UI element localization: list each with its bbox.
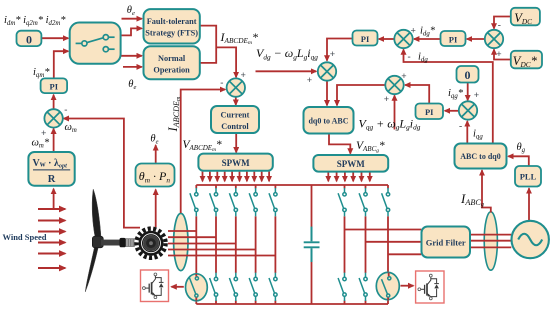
- svg-text:θm · Pn: θm · Pn: [139, 169, 171, 184]
- turbine hub: [92, 236, 103, 248]
- box: PLL: [515, 166, 541, 187]
- grid converter leg drops from top rail: [345, 185, 389, 188]
- wire: V_ABCDEm* from Current Control to machine SPWM: [235, 133, 237, 152]
- box: MPPT tip-speed-ratio Vw*lambda/R: [28, 152, 74, 186]
- svg-text:Wind Speed: Wind Speed: [3, 232, 47, 242]
- svg-text:-: -: [220, 79, 223, 89]
- svg-text:dq0 to ABC: dq0 to ABC: [308, 116, 348, 125]
- wire: iqg* zero reference into iqg summer: [467, 83, 469, 101]
- wire: VDC* reference into DC summer: [494, 49, 511, 59]
- wire: Vqg + wgLgidg feedforward up into q-axis summer: [394, 95, 396, 129]
- wire: Vq output of summer into dq0-to-ABC: [337, 85, 385, 105]
- box: PI q-axis current controller: [416, 104, 444, 120]
- svg-text:+: +: [496, 50, 501, 60]
- machine phase line C: [168, 243, 236, 245]
- grid converter mid-leg conductors: [345, 216, 389, 273]
- DC link capacitor leads: [311, 185, 313, 304]
- wire: mode switch bottom output to Normal Operation box: [121, 55, 142, 57]
- wires: grid filter to transformer to grid source: [470, 235, 511, 248]
- box: operating mode selector switch: [70, 23, 121, 64]
- wire: I_ABCg measurement up into ABC-to-dq0: [482, 170, 491, 212]
- box: theta_m times pole pairs Pn: [136, 164, 175, 187]
- wire: VDC error to DC-link PI: [467, 38, 485, 40]
- summer: machine current error: [227, 78, 245, 96]
- summer: VDC error: [485, 30, 503, 48]
- wire: PI speed controller output iqm* up to mode switch: [54, 51, 68, 78]
- turbine shaft: [101, 240, 121, 246]
- svg-text:+: +: [241, 71, 246, 81]
- summer: d-axis voltage: [318, 62, 336, 80]
- grid converter bottom stubs to rail: [345, 300, 389, 304]
- box: PI speed controller: [41, 78, 68, 93]
- wire: iqg feedback up into iqg summer: [466, 121, 468, 143]
- svg-text:+: +: [384, 95, 389, 105]
- wire: omega_m* reference from MPPT box up to summer: [53, 129, 55, 152]
- machine converter bottom stubs to rail: [196, 300, 275, 304]
- wire: theta_e into FTS box: [122, 18, 142, 20]
- IGBT detail box (grid side): [416, 271, 444, 303]
- svg-text:PI: PI: [449, 34, 458, 44]
- svg-text:0: 0: [465, 68, 471, 82]
- machine SPWM gate pulse arrows: [203, 172, 270, 182]
- box: dq0 to ABC: [304, 107, 354, 134]
- machine stator winding ellipse: [174, 213, 188, 270]
- machine phase line B: [168, 236, 216, 238]
- svg-text:Normal: Normal: [158, 54, 186, 63]
- svg-text:SPWM: SPWM: [337, 159, 366, 169]
- wire: current summer to Current Control: [235, 97, 237, 105]
- summer: q-axis voltage: [385, 76, 403, 94]
- wire: I_ABCDEm feedback from stator ellipse to current summer: [181, 90, 226, 214]
- svg-text:+: +: [411, 27, 416, 37]
- wire: idg feedback from ABC-to-dq0 up and left to idg summer: [404, 49, 493, 143]
- summer: iqg error: [459, 101, 477, 119]
- box: machine-side SPWM: [198, 154, 272, 171]
- wire: faulted machine switch callout arrow: [171, 286, 183, 288]
- wire: iqg error to q-axis PI: [445, 110, 459, 112]
- svg-text:-: -: [64, 106, 67, 116]
- summer: idg error: [394, 30, 412, 48]
- machine phase line A: [168, 230, 196, 232]
- wind turbine lower blade: [85, 239, 100, 292]
- shaft end cap: [120, 238, 126, 247]
- wire: mode switch top output to FTS box: [121, 28, 142, 35]
- faulted grid switch highlight circle: [376, 272, 399, 299]
- wire: idg* from DC-link PI to idg summer: [414, 38, 440, 40]
- wire: faulted grid switch callout arrow: [401, 285, 414, 287]
- wind speed arrow 2: [38, 220, 65, 222]
- grid phase line b: [366, 241, 422, 243]
- wind speed arrow 3: [38, 231, 65, 233]
- grid transformer ellipse: [484, 212, 497, 270]
- box: Normal Operation: [144, 46, 200, 79]
- box: 0 reference iqg*: [457, 66, 479, 83]
- wind speed arrow 5: [38, 253, 65, 255]
- svg-text:+: +: [401, 72, 406, 82]
- wire: VDC measured into DC summer: [494, 17, 511, 29]
- DC link capacitor plates: [304, 227, 320, 262]
- box: PI DC-link voltage controller: [441, 31, 466, 46]
- wire: Vd output of summer into dq0-to-ABC: [326, 81, 328, 105]
- svg-text:Strategy (FTS): Strategy (FTS): [145, 29, 198, 38]
- wire: I_ABCDEm* reference down into current summer: [216, 47, 236, 77]
- svg-text:PI: PI: [50, 82, 59, 92]
- wind speed arrow 6: [38, 267, 65, 269]
- svg-text:Fault-tolerant: Fault-tolerant: [147, 17, 197, 26]
- machine converter bottom switches: [210, 273, 218, 301]
- box: Current Control: [211, 106, 259, 133]
- svg-text:0: 0: [26, 32, 32, 46]
- wire: wind speed up into MPPT box: [53, 189, 55, 209]
- machine phase line E: [168, 255, 275, 257]
- svg-text:+: +: [307, 76, 312, 86]
- svg-text:+: +: [41, 129, 46, 139]
- wire: FTS and Normal Operation outputs joined: [200, 26, 216, 63]
- svg-text:SPWM: SPWM: [222, 158, 251, 168]
- svg-text:PI: PI: [361, 34, 370, 44]
- box: VDC measured: [511, 8, 540, 26]
- box: 0 reference (machine currents): [17, 31, 42, 47]
- wind turbine upper blade: [92, 189, 101, 246]
- box: VDC* reference: [511, 51, 542, 69]
- box: PI d-axis current controller: [353, 31, 378, 46]
- svg-text:-: -: [408, 53, 411, 63]
- svg-text:-: -: [459, 122, 462, 132]
- machine phase line D: [168, 249, 256, 251]
- svg-text:PLL: PLL: [520, 172, 537, 182]
- wind speed arrow 1: [38, 208, 65, 210]
- svg-text:+: +: [330, 50, 335, 60]
- wire: omega_m speed feedback from generator to speed summer: [64, 119, 140, 228]
- machine converter leg drops from top rail: [196, 185, 275, 188]
- machine converter top switches: [190, 188, 198, 216]
- DC bus bottom rail: [196, 303, 388, 305]
- wire: idg error to d-axis PI: [379, 38, 394, 40]
- svg-text:Operation: Operation: [153, 66, 190, 75]
- svg-text:ABC to dq0: ABC to dq0: [460, 152, 500, 161]
- grid SPWM gate pulse arrows: [328, 172, 370, 181]
- svg-text:-: -: [498, 21, 501, 31]
- faulted machine switch highlight circle: [186, 274, 208, 301]
- svg-text:Grid Filter: Grid Filter: [426, 237, 466, 247]
- wire: Vdg - wgLgiqg feedforward into d-axis summer: [256, 70, 317, 72]
- svg-text:Control: Control: [221, 122, 249, 131]
- grid converter bottom switches: [338, 273, 346, 301]
- wire: V_ABCg* from dq0-to-ABC down to grid SPWM: [329, 134, 350, 154]
- wind speed arrow 4: [38, 242, 65, 244]
- svg-text:PI: PI: [425, 107, 434, 117]
- wire: theta_e into Normal Operation box: [123, 66, 142, 68]
- box: Fault-tolerant Strategy (FTS): [144, 9, 200, 43]
- wire: q-axis PI output up and left into q-axis summer: [405, 85, 429, 103]
- svg-text:+: +: [474, 91, 479, 101]
- grid phase line a: [345, 229, 422, 231]
- grid converter top switches: [338, 188, 346, 216]
- generator gear: [135, 227, 168, 260]
- box: Grid Filter: [422, 227, 471, 258]
- grid phase line c: [388, 253, 421, 255]
- machine converter mid-leg conductors: [196, 216, 275, 274]
- box: grid-side SPWM: [313, 155, 388, 172]
- svg-text:R: R: [48, 174, 56, 185]
- summer: speed error (omega): [44, 109, 62, 127]
- wire: 0 reference to mode switch: [42, 37, 68, 39]
- wire: theta_g from PLL into ABC-to-dq0: [508, 156, 529, 165]
- IGBT detail box (machine side): [141, 270, 169, 302]
- wire: grid voltage into PLL: [528, 188, 530, 221]
- svg-text:Current: Current: [221, 111, 250, 120]
- wire: theta_e output arrow above pole-pairs box: [155, 145, 157, 163]
- DC bus top rail: [196, 184, 388, 186]
- shaft coupling: [126, 239, 136, 247]
- wire: speed error to PI: [53, 95, 55, 110]
- wire: d-axis PI output down into d-axis summer: [327, 39, 352, 61]
- box: ABC to dq0: [455, 144, 507, 169]
- wire: theta_m from generator encoder up to pole-pairs box: [155, 190, 157, 227]
- grid AC source: [512, 221, 549, 258]
